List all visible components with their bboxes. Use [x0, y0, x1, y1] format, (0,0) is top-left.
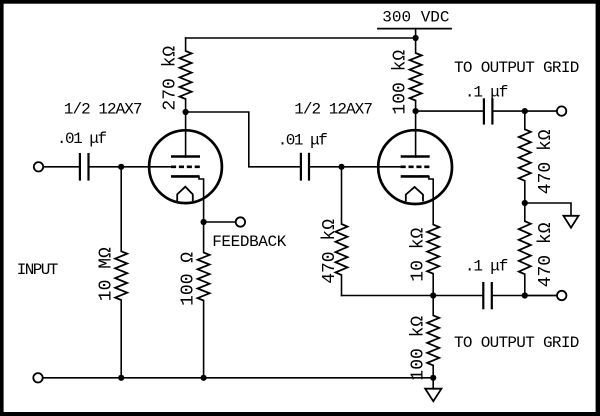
svg-text:270 kΩ: 270 kΩ [161, 46, 181, 111]
svg-text:.01 μf: .01 μf [278, 131, 328, 149]
svg-text:INPUT: INPUT [17, 261, 58, 279]
svg-text:100 kΩ: 100 kΩ [409, 316, 429, 381]
svg-text:1/2 12AX7: 1/2 12AX7 [64, 100, 142, 118]
svg-text:10 MΩ: 10 MΩ [96, 247, 116, 301]
svg-text:470 kΩ: 470 kΩ [536, 129, 556, 194]
svg-text:300 VDC: 300 VDC [382, 9, 449, 27]
svg-text:100 kΩ: 100 kΩ [391, 50, 411, 115]
svg-text:.1 μf: .1 μf [465, 83, 508, 101]
svg-text:470 kΩ: 470 kΩ [536, 222, 556, 287]
svg-text:470 kΩ: 470 kΩ [320, 219, 340, 284]
svg-text:FEEDBACK: FEEDBACK [212, 233, 287, 251]
svg-text:10 kΩ: 10 kΩ [409, 227, 429, 281]
svg-text:100 Ω: 100 Ω [179, 252, 199, 306]
svg-text:TO OUTPUT GRID: TO OUTPUT GRID [454, 59, 579, 77]
svg-text:TO OUTPUT GRID: TO OUTPUT GRID [454, 334, 579, 352]
svg-text:.01 μf: .01 μf [57, 130, 107, 148]
svg-text:1/2 12AX7: 1/2 12AX7 [294, 100, 372, 118]
svg-text:.1 μf: .1 μf [465, 257, 508, 275]
